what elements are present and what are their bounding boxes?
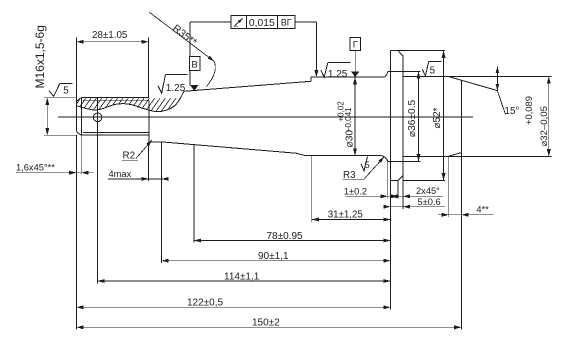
dim 122+-0.5 [76,306,390,308]
dim 31+-1.25 [312,219,391,221]
svg-text:1,6x45°**: 1,6x45°** [16,163,55,173]
svg-text:+0,089: +0,089 [523,96,534,125]
center hole circle [93,113,102,122]
datum B symbol [189,22,191,56]
ext line cone point for 78 dim [193,144,195,242]
dim dia30 vertical [354,77,356,155]
feature control frame: runout 0.015 datums VG [190,21,231,23]
shaft left end face [75,101,77,132]
flange dia52 left face (and extension below) [390,51,392,181]
ext line 15deg chamfer start down [448,156,450,217]
dia30 section top edge [311,76,384,78]
svg-text:2x45°: 2x45° [416,186,440,196]
svg-text:5±0.6: 5±0.6 [418,197,441,207]
svg-text:1±0.2: 1±0.2 [344,187,367,197]
dim 150+-2 [76,326,461,328]
svg-text:1.25: 1.25 [328,69,348,80]
svg-text:В: В [191,60,197,71]
right end face [460,80,462,152]
leader R3 [343,179,365,181]
svg-text:–0,041: –0,041 [344,107,353,132]
leader R35 [149,12,214,61]
section after flange bottom edge [403,155,448,157]
leader R2 [122,159,138,161]
dim 5+-0.6 flange width [384,206,445,208]
chamfer edge line 1.6x45 [80,98,82,136]
svg-text:R3: R3 [343,170,356,181]
svg-text:ВГ: ВГ [281,18,292,28]
FCF leader to dia30 surface [295,21,317,23]
svg-text:4max: 4max [109,169,132,179]
relief ring dia36 bottom edge + extension to dia36 dim [388,160,421,162]
svg-text:90±1,1: 90±1,1 [258,251,289,262]
svg-text:122±0,5: 122±0,5 [187,298,224,309]
svg-text:M16x1,5-6g: M16x1,5-6g [33,25,47,88]
fillet into ring top [384,72,388,78]
dim 1.6x45 chamfer [16,172,94,174]
cone top edge [184,81,311,91]
svg-text:⌀32–0,05: ⌀32–0,05 [539,106,550,146]
svg-text:28±1.05: 28±1.05 [92,30,128,41]
ext line groove right / 90 dim [161,142,163,263]
flange top edge + extension right to dia52 dim [391,50,445,52]
15deg angle callout [496,67,498,91]
ext line flange right face down [402,175,404,209]
relief ring dia36 top edge + extension to dia36 dim [388,71,421,73]
ext line right end face down [460,153,462,330]
dia32 bottom extension line to right dim [448,155,552,157]
dim 28+-1.05 [76,41,148,43]
ext line left face down [75,135,77,329]
ext line flange left face down (common right anchor) [390,180,392,309]
svg-text:78±0.95: 78±0.95 [267,231,304,242]
ext line thread end down (4max dim) [148,142,150,181]
svg-text:4**: 4** [476,205,489,215]
dim 4** [438,214,494,216]
roughness sqrt5 after flange [422,62,428,76]
thread minor diameter bottom line [83,132,149,134]
svg-text:R2: R2 [123,151,136,162]
step at cone end top [310,77,312,81]
roughness sqrt5 at thread [49,84,60,97]
dim 1+-0.2 and 2x45 shared line [345,195,443,197]
dim 90+-1.1 [162,260,391,262]
section after flange top edge [403,75,448,77]
hole axis vertical line / ext for 114 dim [97,98,99,284]
ext line ring start down [387,161,389,198]
flange bottom extension right to dia52 dim [403,179,445,181]
thread end face [148,100,150,142]
fillet R3 [381,156,388,162]
ext stubs for M16 dim [44,97,77,99]
dim 114+-1.1 [98,280,391,282]
svg-text:1.25: 1.25 [166,83,186,94]
relief groove bottom [149,141,161,143]
svg-text:5: 5 [365,160,370,170]
thread minor diameter top line [83,99,149,101]
svg-text:⌀52*: ⌀52* [432,107,443,128]
ext line flange chamfer down [397,180,399,198]
flange right face [402,56,404,175]
cone bottom edge [161,142,297,153]
ext line cone end / 31 dim [311,156,313,222]
dia32 top extension line to right dim [448,75,552,77]
svg-text:5: 5 [430,65,436,76]
dim M16 thread vertical [46,98,48,136]
ext line left face up [75,37,77,101]
svg-text:114±1,1: 114±1,1 [224,271,260,282]
ext line thread end up (28 dim) [148,37,150,97]
15deg chamfer edge and its extension [448,76,497,90]
svg-text:5: 5 [63,86,69,97]
svg-text:Г: Г [353,40,358,51]
flange bottom edge [391,179,399,181]
dia30 section bottom edge [305,155,381,157]
svg-text:0,015: 0,015 [249,18,275,29]
svg-text:31±1,25: 31±1,25 [328,210,363,221]
ext line chamfer down [80,135,82,175]
dim dia52 vertical [443,51,445,181]
roughness 1.25 at cone start [158,75,165,94]
svg-text:150±2: 150±2 [252,318,280,329]
roughness 1.25 at dia30 [321,63,328,78]
broken-out section wavy boundary [76,91,184,111]
thread M16 major diameter top edge [81,97,149,99]
dim 4max groove [108,178,169,180]
centerline axis [58,116,473,118]
bottom chamfer right end [448,153,461,157]
dim dia36 vertical [418,72,420,162]
svg-text:⌀36±0.5: ⌀36±0.5 [407,99,418,137]
dim dia32 vertical right [548,76,550,156]
dim 78+-0.95 [194,240,391,242]
roughness sqrt5 under dia30 [361,156,368,170]
datum G symbol [350,38,361,51]
svg-text:15°: 15° [505,106,520,117]
thread M16 major diameter bottom edge [81,134,149,136]
